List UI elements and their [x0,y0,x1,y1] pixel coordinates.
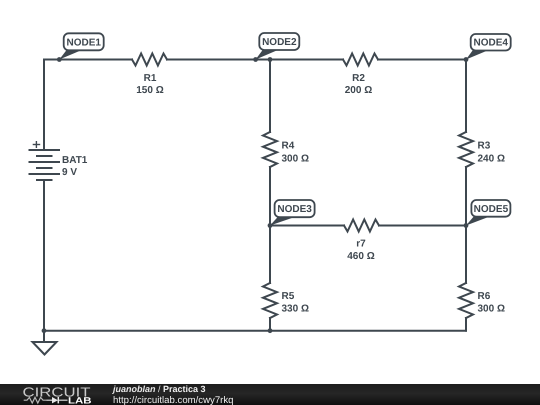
svg-text:300 Ω: 300 Ω [282,154,309,165]
wire NODE5 down to R6 [465,226,467,284]
node NODE2 callout [256,33,300,60]
node dot NODE2 anchor [253,57,258,62]
wire top from battery to R1 [44,59,132,61]
wire R6 to bottom rail [465,318,467,331]
svg-text:NODE5: NODE5 [474,204,509,215]
resistor R3 [459,132,473,167]
wire battery bottom lead [43,180,45,331]
svg-text:NODE3: NODE3 [277,204,312,215]
footer bar [0,384,540,405]
wire R3 to NODE5 [465,167,467,226]
svg-text:240 Ω: 240 Ω [478,154,505,165]
ground lead [43,331,45,342]
junction at NODE5 [464,223,469,228]
resistor R2 [343,54,378,66]
node NODE1 callout [59,33,103,59]
svg-text:R3: R3 [478,141,491,152]
node NODE4 callout [466,34,511,60]
resistor R6 [459,283,473,318]
svg-text:300 Ω: 300 Ω [478,304,505,315]
junction bottom left [42,328,47,333]
svg-text:NODE4: NODE4 [473,38,508,49]
wire R4 to NODE3 [269,167,271,226]
svg-text:BAT1: BAT1 [62,155,88,166]
ground triangle [33,342,57,355]
svg-text:200 Ω: 200 Ω [345,85,372,96]
wire R5 to bottom rail [269,318,271,331]
svg-text:150 Ω: 150 Ω [136,85,163,96]
battery BAT1 plates [29,150,61,180]
node NODE5 callout [466,200,510,226]
wire battery top lead [43,60,45,151]
svg-text:juanoblan / Practica 3: juanoblan / Practica 3 [112,384,206,394]
svg-text:R2: R2 [352,73,365,84]
node NODE3 callout [270,200,315,226]
svg-text:330 Ω: 330 Ω [282,304,309,315]
svg-text:LAB: LAB [68,395,92,405]
svg-text:http://circuitlab.com/cwy7rkq: http://circuitlab.com/cwy7rkq [113,395,234,405]
svg-text:R5: R5 [282,291,295,302]
wire r7 to NODE5 [379,225,466,227]
battery plus sign [33,141,41,148]
resistor R5 [263,283,277,318]
logo diode [47,399,53,401]
wire bottom rail [44,330,466,332]
wire NODE3 to r7 [270,225,344,227]
node dot NODE1 anchor [57,57,62,62]
junction at NODE2 [268,57,273,62]
svg-text:NODE1: NODE1 [66,37,101,48]
resistor r7 [344,220,379,232]
wire NODE3 down to R5 [269,226,271,284]
svg-text:R4: R4 [282,141,295,152]
svg-text:R6: R6 [478,291,491,302]
logo resistor zigzag [24,397,47,403]
node dot NODE4 anchor [464,57,469,62]
wire R1 to R2 [167,59,343,61]
wire NODE4 down to R3 [465,60,467,133]
svg-text:R1: R1 [144,73,157,84]
wire R2 to NODE4 corner [378,59,466,61]
junction at NODE3 [268,223,273,228]
wire NODE2 down to R4 [269,60,271,133]
resistor R1 [132,54,167,66]
svg-text:NODE2: NODE2 [262,37,297,48]
svg-text:r7: r7 [356,239,366,250]
resistor R4 [263,132,277,167]
junction R5 bottom [268,328,273,333]
svg-text:9 V: 9 V [62,167,77,178]
svg-text:460 Ω: 460 Ω [347,251,374,262]
